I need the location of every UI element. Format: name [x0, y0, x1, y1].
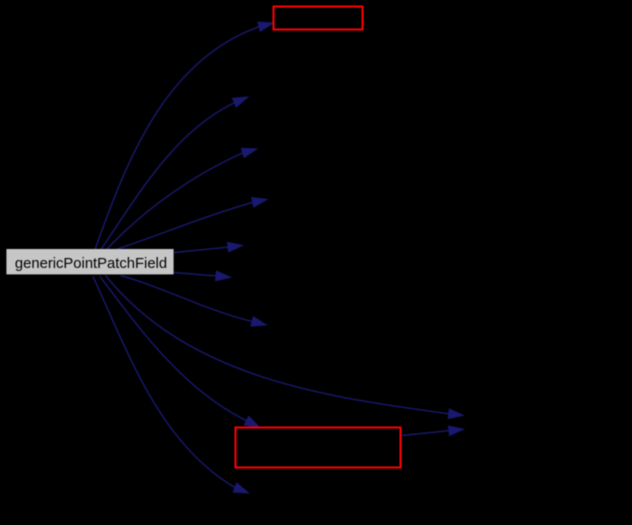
edge to top red box — [95, 22, 273, 250]
edge 9 (bottom) — [93, 277, 249, 494]
node red box bottom (label hidden on black) — [236, 428, 401, 468]
edge 2 — [107, 148, 257, 249]
edge 5 — [174, 271, 231, 281]
edge 6 — [121, 276, 267, 327]
edge 4 — [174, 242, 243, 252]
edge 3 — [116, 198, 267, 250]
edge 7 (long right) — [106, 276, 464, 419]
edge 1 — [101, 97, 248, 250]
edge 10 (box to right node) — [402, 426, 464, 436]
node pointPatchField (red box top, label hidden on black) — [274, 7, 363, 30]
edge 8 (to bottom red box) — [100, 277, 260, 428]
node genericPointPatchField (current class) — [6, 249, 173, 274]
svg-text:genericPointPatchField: genericPointPatchField — [15, 256, 167, 272]
